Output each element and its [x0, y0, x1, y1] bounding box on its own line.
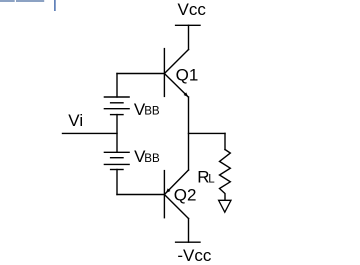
svg-text:L: L [208, 172, 215, 185]
svg-text:Q1: Q1 [176, 65, 199, 84]
svg-text:Vi: Vi [68, 111, 83, 130]
svg-text:-Vcc: -Vcc [177, 246, 212, 265]
svg-text:Vcc: Vcc [178, 0, 207, 19]
svg-text:BB: BB [144, 152, 160, 165]
svg-text:BB: BB [144, 105, 160, 118]
svg-text:Q2: Q2 [174, 185, 197, 204]
